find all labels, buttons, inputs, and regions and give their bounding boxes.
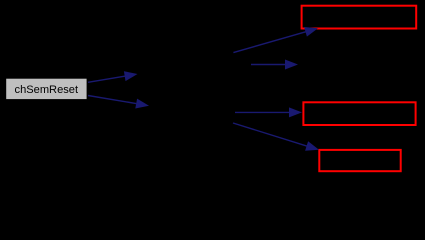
edge lower middle node -> bottom red node xyxy=(233,123,319,151)
edge lower middle node -> middle red node (horizontal) xyxy=(235,107,302,117)
edge upper middle node -> top red node xyxy=(233,27,318,53)
edge chSemReset -> lower middle node xyxy=(88,96,149,109)
node (truncated, red) middle-right xyxy=(303,102,415,125)
node (truncated, red) top-right xyxy=(302,6,417,29)
node chSemReset (current function, grey) xyxy=(6,79,86,99)
edge upper middle node -> hidden node (horizontal) xyxy=(251,60,298,70)
svg-text:chSemReset: chSemReset xyxy=(15,84,79,96)
node (truncated, red) bottom-right xyxy=(319,150,400,171)
edge chSemReset -> upper middle node xyxy=(88,71,138,82)
